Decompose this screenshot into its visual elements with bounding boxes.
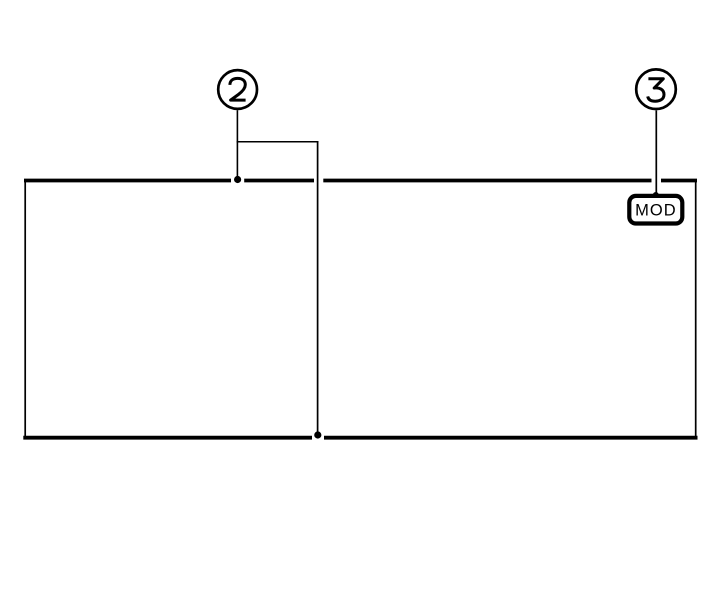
junction dot node on MOD box: [653, 192, 659, 198]
digit 2: [230, 78, 246, 100]
junction dot node on top edge: [234, 176, 241, 183]
panel bottom edge thick line segment 1: [23, 436, 312, 440]
leader line from circle 3: [655, 111, 657, 194]
panel right edge: [695, 181, 697, 439]
panel left edge: [24, 180, 26, 438]
leader branch vertical wire: [317, 141, 319, 434]
callout circle 3: [636, 69, 676, 109]
panel bottom edge thick line segment 2: [324, 436, 698, 440]
panel top edge thick line segment 1: [24, 179, 231, 183]
junction dot node on bottom edge: [314, 431, 321, 438]
panel top edge thick line segment 3: [323, 179, 651, 183]
leader branch horizontal wire: [237, 141, 319, 143]
MOD connector box: [629, 196, 682, 224]
leader line from circle 2: [236, 110, 238, 179]
svg-text:MOD: MOD: [635, 202, 677, 220]
panel top edge thick line segment 2: [244, 179, 314, 183]
callout circle 2: [218, 70, 257, 109]
panel top edge thick line segment 4: [661, 179, 697, 183]
digit 3: [648, 79, 664, 101]
